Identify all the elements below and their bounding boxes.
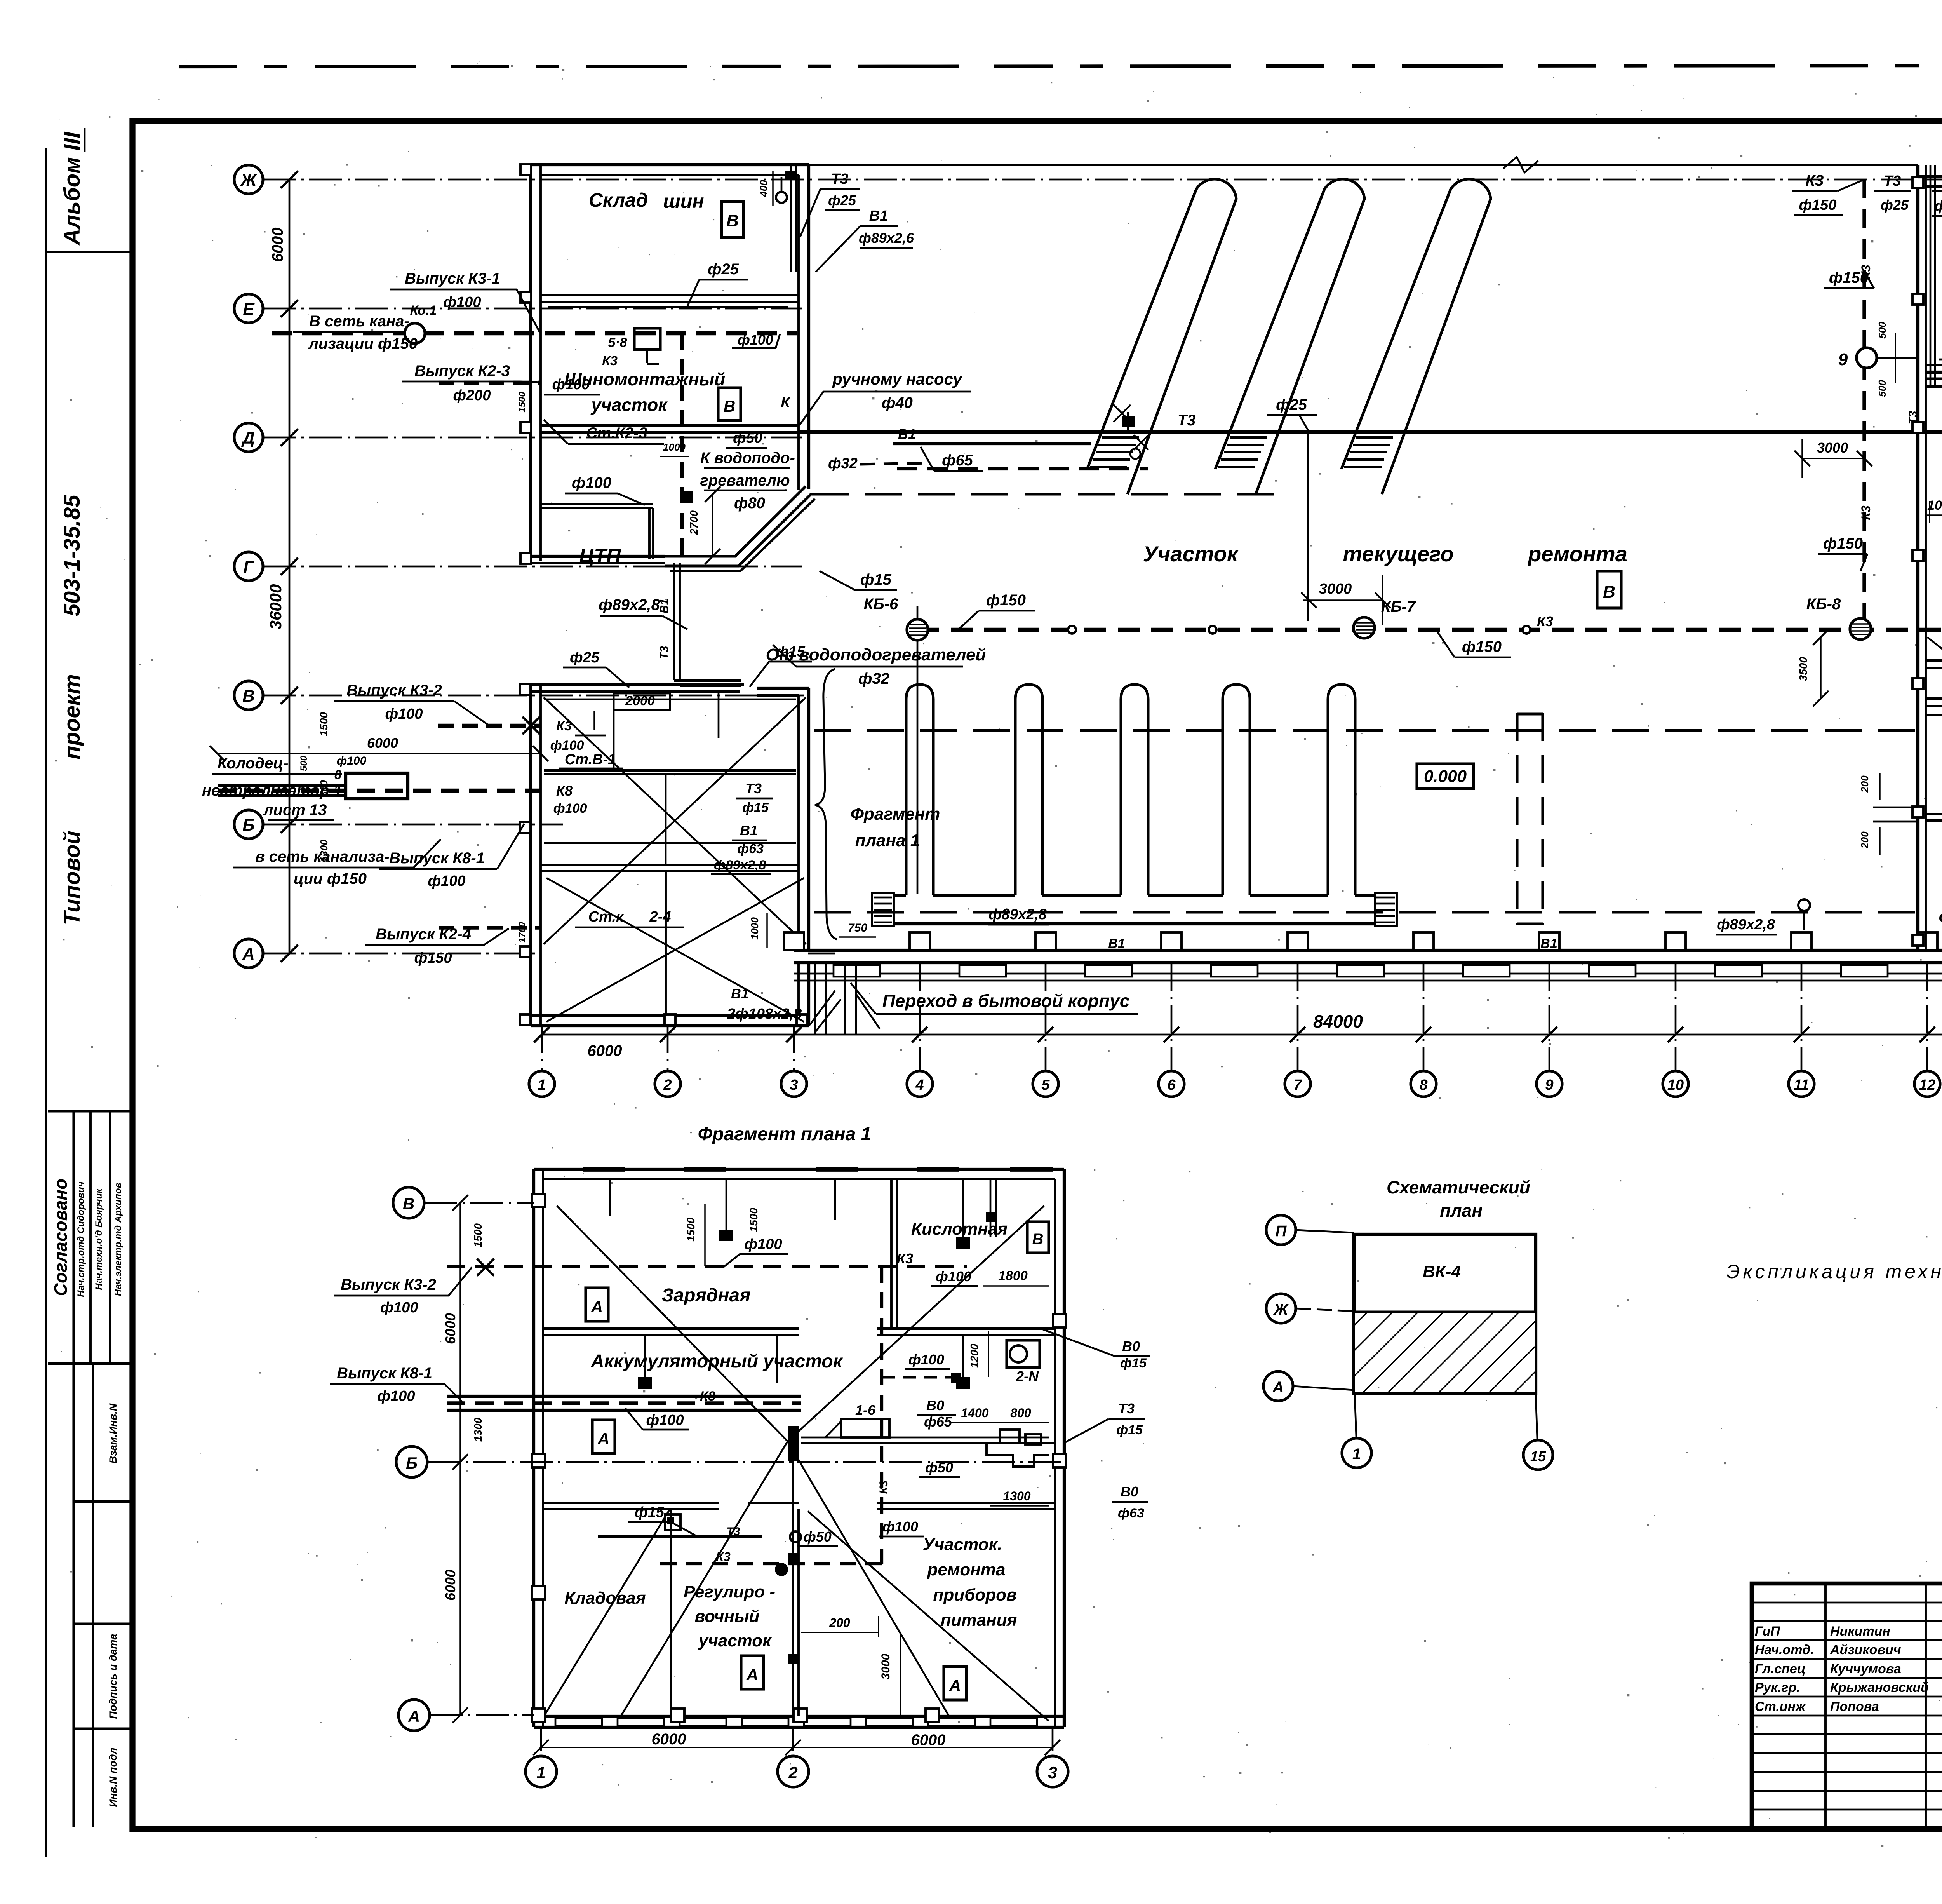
svg-text:3500: 3500 (1797, 657, 1809, 681)
schematic axis П (1266, 1215, 1296, 1245)
K3 main sewer dashed (917, 628, 1942, 632)
svg-text:2000: 2000 (625, 693, 655, 708)
schematic rect (1354, 1234, 1536, 1393)
svg-text:Ко.1: Ко.1 (410, 303, 437, 318)
T3/V1 risers from CTP down to V-block (673, 563, 675, 680)
svg-text:1-6: 1-6 (855, 1402, 876, 1418)
svg-text:К3: К3 (1859, 505, 1873, 520)
svg-text:Ст.К2-3: Ст.К2-3 (586, 425, 647, 442)
svg-text:К3: К3 (716, 1550, 731, 1564)
comb finger 1 (906, 685, 933, 895)
svg-text:ф100: ф100 (380, 1300, 418, 1316)
mednicko bottom wall (1926, 377, 1942, 380)
inner pipe along top wall (544, 699, 796, 700)
0.000 level box (1417, 764, 1474, 789)
K8 line to well (218, 789, 541, 793)
svg-text:84000: 84000 (1313, 1011, 1363, 1031)
svg-text:К3: К3 (877, 1480, 890, 1494)
V1 line left (893, 442, 1091, 445)
equip 1-6 (841, 1419, 889, 1437)
well Ko-1 (405, 323, 425, 343)
svg-text:ф100: ф100 (385, 706, 423, 722)
svg-text:ф100: ф100 (646, 1412, 684, 1428)
svg-text:Т3: Т3 (658, 646, 671, 659)
svg-text:10: 10 (1667, 1077, 1684, 1093)
svg-text:6000: 6000 (588, 1042, 622, 1059)
svg-text:2-N: 2-N (1016, 1368, 1039, 1384)
svg-text:3: 3 (790, 1077, 798, 1093)
svg-text:ф25: ф25 (1276, 396, 1307, 413)
svg-text:ф89х2,8: ф89х2,8 (599, 596, 660, 613)
svg-text:400: 400 (758, 180, 769, 197)
svg-text:В1: В1 (898, 426, 916, 442)
sklad zapchastey bottom wall (1926, 659, 1942, 662)
axis row Ж (234, 165, 263, 194)
svg-text:2: 2 (788, 1763, 797, 1782)
svg-text:ф100: ф100 (377, 1388, 415, 1404)
comb finger 2 (1015, 685, 1042, 895)
vertical pipe x2048 (792, 1443, 794, 1716)
category box V (sklad shin) (722, 202, 743, 237)
K3 dashed segment (1926, 371, 1942, 374)
svg-text:Айзикович: Айзикович (1830, 1643, 1901, 1657)
svg-text:К3: К3 (897, 1251, 913, 1266)
svg-text:Б: Б (406, 1454, 418, 1472)
svg-text:Д: Д (241, 429, 255, 448)
category box V 2 (718, 388, 741, 420)
big X diagonals fragment (557, 1206, 788, 1441)
svg-text:Инв.N подл: Инв.N подл (107, 1747, 119, 1807)
axis column 2 (667, 1026, 669, 1071)
title block outer (1752, 1583, 1942, 1829)
svg-text:В1: В1 (1540, 936, 1557, 951)
axis column 12 (1926, 963, 1928, 1071)
long dash across hall (814, 729, 1917, 732)
svg-text:Переход в бытовой корпус: Переход в бытовой корпус (882, 991, 1130, 1011)
axis row Б (234, 810, 263, 839)
axis row В (234, 681, 263, 710)
ramp at 3130 (1215, 179, 1364, 494)
piping cluster right (987, 1443, 1049, 1467)
svg-text:К3: К3 (1537, 613, 1553, 629)
well KB-6 (907, 619, 928, 640)
ramp at 2800 (1087, 179, 1236, 494)
svg-text:Зарядная: Зарядная (662, 1285, 751, 1306)
svg-text:в сеть канализа-: в сеть канализа- (255, 848, 389, 865)
svg-text:ф25: ф25 (570, 650, 600, 666)
St.V-1 line (544, 769, 796, 772)
svg-text:9: 9 (1838, 350, 1848, 369)
svg-text:Нач.отд.: Нач.отд. (1755, 1643, 1814, 1657)
svg-text:Куччумова: Куччумова (1830, 1662, 1901, 1676)
svg-text:8: 8 (1419, 1077, 1428, 1093)
K3 sewer line row E (v set kanalizacii) (272, 331, 797, 336)
fragment wall columns (532, 1194, 545, 1207)
svg-text:Т3: Т3 (1118, 1401, 1135, 1416)
svg-text:питания: питания (941, 1611, 1017, 1630)
svg-text:ф32: ф32 (858, 670, 889, 687)
svg-text:лизации ф150: лизации ф150 (308, 335, 418, 352)
svg-text:Гл.спец: Гл.спец (1755, 1662, 1806, 1676)
svg-text:15: 15 (1530, 1448, 1546, 1464)
wall columns left (520, 164, 531, 175)
interior wall zaryadnaya bottom (543, 1327, 799, 1330)
svg-text:ф15: ф15 (860, 571, 892, 588)
svg-text:ф65: ф65 (924, 1414, 952, 1430)
svg-text:ф65: ф65 (942, 452, 973, 469)
riser pair top right (790, 165, 792, 272)
svg-text:Нач.стр.отд Сидорович: Нач.стр.отд Сидорович (76, 1181, 86, 1297)
vertical dim line 36000 (289, 179, 291, 953)
svg-text:Т3: Т3 (1884, 173, 1901, 189)
svg-text:Е: Е (243, 300, 255, 319)
svg-text:В1: В1 (1108, 936, 1125, 951)
svg-text:1500: 1500 (318, 712, 330, 736)
axis column 3 (793, 1026, 795, 1071)
svg-text:Нач.электр.тд Архипов: Нач.электр.тд Архипов (113, 1183, 124, 1296)
svg-text:4: 4 (915, 1077, 924, 1093)
svg-text:503-1-35.85: 503-1-35.85 (59, 495, 85, 617)
right block top wall (1918, 175, 1942, 178)
svg-text:ф25: ф25 (1881, 197, 1909, 213)
svg-text:ф150: ф150 (1799, 197, 1836, 213)
svg-text:ф89х2,8: ф89х2,8 (714, 858, 766, 873)
vertical K3 f150 dashed outside hall wall (1862, 179, 1866, 630)
svg-text:1700: 1700 (517, 922, 527, 943)
svg-text:Ж: Ж (1273, 1301, 1289, 1318)
comb structure (893, 894, 906, 897)
axis row A right stub (808, 953, 835, 955)
svg-text:ф150: ф150 (414, 950, 452, 966)
2-N unit (1007, 1340, 1040, 1367)
svg-text:ф89х2,8: ф89х2,8 (988, 906, 1047, 923)
svg-text:К: К (781, 394, 791, 411)
agregatny block top wall (1926, 697, 1942, 700)
svg-text:Никитин: Никитин (1830, 1624, 1890, 1639)
V1 pipe mid (544, 842, 796, 844)
svg-text:Согласовано: Согласовано (50, 1179, 71, 1296)
svg-text:ручному насосу: ручному насосу (832, 370, 963, 388)
f25 pipe along sklad-shin wall (548, 306, 788, 308)
svg-text:Схематический: Схематический (1387, 1177, 1530, 1197)
fragment axis circles (393, 1187, 424, 1218)
svg-text:В сеть кана-: В сеть кана- (309, 313, 409, 330)
svg-text:ф25: ф25 (828, 192, 856, 208)
svg-text:Участок: Участок (1143, 542, 1239, 566)
axis column 11 (1801, 963, 1803, 1071)
svg-text:6: 6 (1167, 1077, 1176, 1093)
svg-text:участок: участок (698, 1631, 772, 1650)
top cut dashed line (179, 65, 1942, 67)
comb finger 4 (1223, 685, 1250, 895)
svg-text:ф200: ф200 (453, 387, 491, 404)
svg-text:9: 9 (1545, 1077, 1553, 1093)
svg-text:А: А (242, 944, 255, 963)
svg-text:ремонта: ремонта (927, 1560, 1006, 1579)
axis column 8 (1423, 963, 1425, 1071)
schematic axis 1 (1355, 1393, 1356, 1437)
hall north line (809, 164, 1918, 166)
margin strip table (72, 1111, 75, 1827)
svg-text:6000: 6000 (442, 1313, 458, 1344)
risers pair on wall (1930, 165, 1932, 387)
svg-text:Альбом III: Альбом III (59, 131, 85, 246)
unit 5-8 (634, 328, 660, 350)
svg-text:1300: 1300 (472, 1417, 484, 1442)
V0 f65 pipe right (801, 1442, 1055, 1444)
svg-text:1800: 1800 (998, 1268, 1028, 1283)
svg-text:А: А (1272, 1379, 1284, 1396)
svg-text:Фрагмент плана 1: Фрагмент плана 1 (698, 1124, 872, 1144)
X diagonals upper room (544, 697, 806, 944)
svg-text:ремонта: ремонта (1527, 542, 1627, 566)
svg-text:Склад: Склад (589, 189, 648, 211)
svg-text:Взам.Инв.N: Взам.Инв.N (107, 1403, 119, 1463)
V1 pipe in CTP (541, 503, 653, 505)
svg-text:А: А (949, 1676, 961, 1695)
axis column 4 (919, 963, 921, 1071)
svg-text:6000: 6000 (911, 1732, 946, 1749)
svg-text:А: А (591, 1298, 603, 1316)
svg-text:12: 12 (1919, 1077, 1935, 1093)
svg-text:Ст.к: Ст.к (588, 909, 624, 925)
f15 pipe lower left (598, 1535, 762, 1538)
svg-text:0.000: 0.000 (1424, 767, 1467, 786)
fragment brace (815, 669, 837, 939)
KB-8 well (1850, 618, 1871, 639)
svg-text:ф150: ф150 (986, 592, 1026, 609)
svg-text:ф50: ф50 (925, 1460, 953, 1475)
svg-text:Фрагмент: Фрагмент (851, 805, 940, 824)
svg-text:ф100: ф100 (738, 332, 773, 348)
outer left trim line (45, 148, 47, 1857)
svg-text:3000: 3000 (1319, 581, 1352, 597)
svg-text:500: 500 (299, 755, 309, 771)
svg-text:2-4: 2-4 (649, 909, 671, 925)
svg-text:5·8: 5·8 (608, 335, 627, 350)
svg-text:Крыжановский: Крыжановский (1830, 1680, 1929, 1695)
right block left wall (1916, 165, 1919, 950)
svg-text:план: план (1440, 1200, 1483, 1221)
category boxes fragment (586, 1288, 608, 1321)
svg-text:приборов: приборов (933, 1585, 1016, 1604)
K3 dashed lower (660, 1562, 882, 1565)
svg-text:ф100: ф100 (428, 873, 465, 889)
K8 f100 pipe fragment (447, 1401, 801, 1405)
CTP bevel corridor (665, 486, 806, 556)
svg-text:750: 750 (848, 922, 867, 934)
svg-text:Выпуск К8-1: Выпуск К8-1 (337, 1365, 432, 1382)
svg-text:ф63: ф63 (1118, 1506, 1144, 1521)
well KB-7 circle (1354, 617, 1375, 638)
svg-text:ф100: ф100 (443, 294, 481, 310)
svg-text:ф100: ф100 (337, 754, 367, 767)
svg-text:ф32: ф32 (828, 455, 858, 472)
svg-text:В1: В1 (658, 599, 671, 613)
svg-text:Попова: Попова (1830, 1699, 1879, 1714)
category box V hall (1597, 571, 1621, 608)
svg-text:лист 13: лист 13 (263, 801, 327, 819)
valve sym (522, 717, 540, 734)
zaryadnaya equipment marks (609, 1179, 611, 1216)
svg-text:6000: 6000 (442, 1570, 458, 1601)
K3-2 dashed stub (438, 724, 541, 728)
svg-text:500: 500 (1876, 380, 1888, 397)
svg-text:Т3: Т3 (1178, 412, 1196, 429)
svg-text:оборудования: оборудования (1939, 908, 1942, 925)
svg-text:Выпуск К8-1: Выпуск К8-1 (389, 850, 485, 867)
svg-text:Г: Г (243, 557, 254, 577)
svg-text:А: А (597, 1430, 609, 1448)
fragment bottom plinth (555, 1718, 602, 1726)
svg-text:К8: К8 (700, 1389, 715, 1404)
sklad shin bottom wall (541, 294, 799, 296)
svg-text:6000: 6000 (652, 1731, 686, 1748)
svg-text:8: 8 (334, 768, 341, 782)
svg-text:В: В (403, 1195, 414, 1213)
apron below wall (794, 973, 1942, 975)
trench band (447, 1395, 801, 1398)
svg-text:Участок.: Участок. (923, 1535, 1002, 1554)
svg-text:3000: 3000 (1817, 440, 1848, 456)
axis column 5 (1045, 963, 1047, 1071)
svg-text:В: В (1603, 582, 1615, 601)
svg-text:Ст.В-1: Ст.В-1 (565, 751, 616, 768)
gauge lower mid (790, 1531, 801, 1542)
svg-text:ф150: ф150 (1462, 638, 1502, 655)
svg-text:КБ-7: КБ-7 (1381, 598, 1416, 615)
svg-text:1: 1 (538, 1077, 546, 1093)
svg-text:вочный: вочный (695, 1607, 760, 1626)
break mark (1503, 157, 1538, 172)
axis column 10 (1675, 963, 1677, 1071)
dimension line 84000 (542, 1034, 1942, 1036)
title block signature columns (1824, 1583, 1827, 1829)
svg-text:шин: шин (663, 190, 704, 212)
svg-text:200: 200 (829, 1616, 850, 1630)
3000 dim left of block (1802, 458, 1864, 459)
svg-text:6000: 6000 (269, 228, 286, 262)
axis column 9 (1549, 963, 1550, 1071)
svg-text:ф15: ф15 (1116, 1423, 1143, 1437)
svg-text:Выпуск К2-3: Выпуск К2-3 (414, 362, 510, 380)
svg-text:Выпуск К3-2: Выпуск К3-2 (341, 1276, 436, 1293)
rotated margin texts (46, 251, 132, 253)
svg-text:К3: К3 (602, 354, 618, 368)
svg-text:К8: К8 (556, 783, 573, 799)
svg-text:Ж: Ж (240, 171, 258, 190)
svg-text:800: 800 (1010, 1406, 1031, 1420)
schematic axis А (1263, 1371, 1293, 1401)
6000 dim above K8 (218, 753, 541, 754)
svg-text:3: 3 (1048, 1763, 1057, 1782)
svg-text:1500: 1500 (748, 1207, 760, 1232)
svg-text:ф100: ф100 (553, 801, 587, 816)
svg-text:ф15: ф15 (776, 644, 806, 660)
axis column 6 (1171, 963, 1173, 1071)
svg-text:ф89х2,8: ф89х2,8 (1717, 916, 1775, 933)
svg-text:1300: 1300 (1003, 1489, 1030, 1503)
svg-text:В: В (724, 397, 735, 415)
svg-text:Кислотная: Кислотная (911, 1219, 1008, 1239)
svg-text:П: П (1276, 1223, 1287, 1240)
ramp at 3455 (1342, 179, 1491, 494)
KB-6 drop line through comb (917, 640, 919, 894)
svg-text:Т3: Т3 (726, 1525, 740, 1538)
fragment axis columns 1 2 3 (540, 1727, 542, 1756)
vertical K3 dashed in CTP (680, 333, 684, 559)
perekhod corridor (814, 963, 816, 1035)
svg-text:ф15: ф15 (635, 1504, 665, 1521)
svg-text:11: 11 (1794, 1077, 1809, 1093)
svg-text:2700: 2700 (688, 510, 700, 535)
svg-text:ф100: ф100 (936, 1268, 971, 1284)
svg-text:1200: 1200 (968, 1343, 980, 1368)
svg-text:ф100: ф100 (550, 738, 584, 753)
interior verticals upper room (613, 692, 615, 770)
svg-text:500: 500 (1876, 322, 1888, 339)
svg-text:Т3: Т3 (1907, 411, 1919, 424)
svg-text:плана 1: плана 1 (855, 831, 920, 850)
f89x2.8 long dash line (814, 911, 1917, 913)
svg-text:ф25: ф25 (708, 261, 739, 278)
dashed shaft right-center (1516, 713, 1518, 925)
fragment vertical dim lines (459, 1203, 461, 1715)
comb hatched ends (872, 893, 894, 926)
svg-text:участок: участок (590, 395, 668, 415)
svg-text:ф15: ф15 (742, 800, 769, 815)
svg-text:К3: К3 (1806, 172, 1824, 189)
svg-text:1: 1 (1352, 1446, 1361, 1463)
svg-text:ции ф150: ции ф150 (294, 870, 367, 887)
svg-text:ф80: ф80 (734, 495, 765, 512)
svg-text:В: В (726, 211, 739, 230)
svg-text:ф150: ф150 (1829, 269, 1869, 286)
svg-text:КБ-8: КБ-8 (1806, 596, 1841, 613)
svg-text:Шиномонтажный: Шиномонтажный (564, 369, 725, 389)
T3 main line (799, 430, 1942, 434)
schematic axis Ж (1266, 1294, 1296, 1323)
svg-text:Рук.гр.: Рук.гр. (1755, 1680, 1800, 1695)
svg-text:Подпись и дата: Подпись и дата (107, 1634, 119, 1719)
CTP bottom wall (531, 555, 665, 558)
axis column 1 (541, 1026, 543, 1071)
svg-text:В1: В1 (731, 986, 749, 1002)
svg-text:Т3: Т3 (745, 780, 762, 796)
f65 dashed (897, 467, 1148, 470)
svg-text:В1: В1 (869, 208, 888, 224)
svg-text:ф100: ф100 (744, 1236, 782, 1252)
svg-text:5: 5 (1041, 1077, 1050, 1093)
svg-text:текущего: текущего (1343, 542, 1453, 566)
upper-left window marks fragment (583, 1167, 625, 1172)
svg-text:36000: 36000 (266, 584, 285, 630)
schematic axis 15 (1536, 1393, 1537, 1439)
svg-text:В: В (242, 686, 255, 706)
svg-text:Т3: Т3 (831, 171, 848, 187)
svg-text:Типовой: Типовой (59, 831, 85, 925)
svg-text:1: 1 (536, 1763, 545, 1782)
svg-text:К3: К3 (556, 719, 572, 733)
lower rooms top wall (543, 1502, 719, 1504)
axis column 7 (1297, 963, 1299, 1071)
svg-text:ф50: ф50 (733, 430, 762, 446)
svg-text:1400: 1400 (961, 1406, 988, 1420)
svg-text:А: А (408, 1707, 420, 1725)
small nodes on K3 (1068, 626, 1076, 634)
svg-text:Выпуск К2-4: Выпуск К2-4 (376, 926, 471, 943)
svg-text:ф15: ф15 (1120, 1356, 1147, 1371)
